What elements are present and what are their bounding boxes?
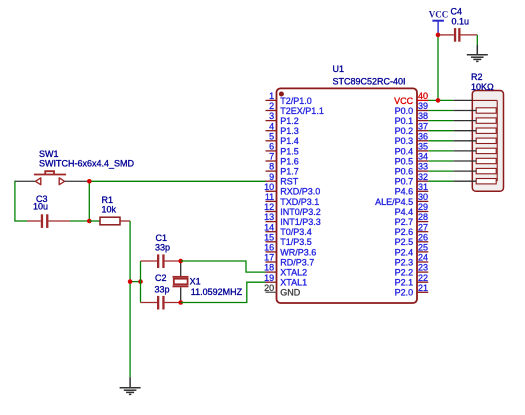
svg-text:P1.7: P1.7 xyxy=(280,167,299,177)
svg-text:11.0592MHZ: 11.0592MHZ xyxy=(191,287,243,297)
power port VCC xyxy=(429,10,449,35)
node: C1/X1 junction xyxy=(178,259,183,264)
R2 element resistor 5 (pin 35 net) xyxy=(476,148,496,153)
pin 9 (RST) xyxy=(266,172,299,187)
pin 34 (P0.5) xyxy=(395,152,429,167)
pin 20 (GND) xyxy=(264,283,301,298)
pin 22 (P2.1) xyxy=(395,273,429,288)
pin 14 (T0/P3.4) xyxy=(264,222,312,237)
pin 10 (RXD/P3.0) xyxy=(264,182,320,197)
pin 23 (P2.2) xyxy=(395,263,429,278)
svg-text:ALE/P4.5: ALE/P4.5 xyxy=(375,197,413,207)
svg-text:10u: 10u xyxy=(33,202,48,212)
svg-text:TXD/P3.1: TXD/P3.1 xyxy=(280,197,319,207)
svg-text:RST: RST xyxy=(280,177,299,187)
pin 17 (RD/P3.7) xyxy=(264,253,314,268)
svg-text:T2/P1.0: T2/P1.0 xyxy=(280,96,312,106)
svg-text:36: 36 xyxy=(418,131,428,141)
svg-text:T2EX/P1.1: T2EX/P1.1 xyxy=(280,106,324,116)
pin 7 (P1.6) xyxy=(266,152,299,167)
pin 31 (P4.6) xyxy=(395,182,429,197)
svg-text:33: 33 xyxy=(418,162,428,172)
pin 26 (P2.5) xyxy=(395,232,429,247)
pin 28 (P2.7) xyxy=(395,212,429,227)
wire: vertical R1 to bridge xyxy=(129,221,131,282)
svg-text:10: 10 xyxy=(264,182,274,192)
svg-text:VCC: VCC xyxy=(394,96,414,106)
R2 pin 5 lead (black) xyxy=(453,140,476,142)
pin 4 (P1.3) xyxy=(266,121,299,136)
wire: U1 pin 36 to R2 xyxy=(428,140,453,142)
svg-text:15: 15 xyxy=(264,232,274,242)
wire: vertical bridge to ground xyxy=(129,282,131,378)
svg-text:T0/P3.4: T0/P3.4 xyxy=(280,227,312,237)
pin 2 (T2EX/P1.1) xyxy=(266,101,324,116)
svg-text:XTAL1: XTAL1 xyxy=(280,278,307,288)
svg-text:INT1/P3.3: INT1/P3.3 xyxy=(280,217,321,227)
capacitor C2 xyxy=(141,296,181,310)
R2 pin 7 lead (black) xyxy=(453,120,476,122)
svg-text:R2: R2 xyxy=(471,72,483,82)
pin 1 (T2/P1.0) xyxy=(266,91,312,106)
svg-text:26: 26 xyxy=(418,232,428,242)
node: C2/X1 junction xyxy=(178,300,183,305)
svg-text:17: 17 xyxy=(264,253,274,263)
R2 element resistor 3 (pin 37 net) xyxy=(476,128,496,133)
svg-text:30: 30 xyxy=(418,192,428,202)
R2 element resistor 8 (pin 32 net) xyxy=(476,179,496,184)
svg-text:P0.5: P0.5 xyxy=(395,156,414,166)
pin 15 (T1/P3.5) xyxy=(264,232,312,247)
R2 element resistor 1 (pin 39 net) xyxy=(476,108,496,113)
svg-text:33p: 33p xyxy=(155,284,170,294)
pin 38 (P0.1) xyxy=(395,111,429,126)
svg-text:C1: C1 xyxy=(156,233,168,243)
crystal X1 xyxy=(173,261,189,303)
svg-text:RXD/P3.0: RXD/P3.0 xyxy=(280,187,320,197)
svg-text:10k: 10k xyxy=(102,205,117,215)
R2 pin 1 lead (black) xyxy=(453,180,476,182)
svg-text:11: 11 xyxy=(265,192,274,202)
pin 5 (P1.4) xyxy=(266,131,299,146)
svg-text:X1: X1 xyxy=(190,276,201,286)
svg-text:R1: R1 xyxy=(102,195,114,205)
svg-text:P2.2: P2.2 xyxy=(395,268,414,278)
wire: C1 node to XTAL2 pin 18 xyxy=(181,261,266,272)
svg-text:37: 37 xyxy=(418,121,428,131)
R2 pin 2 lead (black) xyxy=(453,170,476,172)
pin 24 (P2.3) xyxy=(395,253,429,268)
wire: C3 left segment xyxy=(15,220,27,222)
svg-text:P0.1: P0.1 xyxy=(395,116,414,126)
R2 common pin 9 (black) xyxy=(453,99,472,101)
svg-text:VCC: VCC xyxy=(429,10,449,20)
svg-text:9: 9 xyxy=(269,172,274,182)
svg-text:P4.4: P4.4 xyxy=(395,207,414,217)
wire: C3 to RST node xyxy=(70,220,89,222)
svg-text:GND: GND xyxy=(280,288,301,298)
svg-text:P1.3: P1.3 xyxy=(280,126,299,136)
node: pin 40 / VCC junction xyxy=(436,98,441,103)
pin 11 (TXD/P3.1) xyxy=(265,192,319,207)
svg-text:39: 39 xyxy=(418,101,428,111)
wire: pin 40 to R2 common xyxy=(428,99,454,101)
ground symbol (left) xyxy=(120,377,141,394)
svg-text:22: 22 xyxy=(418,273,428,283)
svg-text:27: 27 xyxy=(418,222,428,232)
svg-text:40: 40 xyxy=(418,91,428,101)
capacitor C4 xyxy=(438,28,477,42)
svg-text:P1.4: P1.4 xyxy=(280,136,299,146)
pin 18 (XTAL2) xyxy=(264,263,307,278)
node: SW1/RST junction xyxy=(87,179,92,184)
svg-text:7: 7 xyxy=(269,152,274,162)
pin 21 (P2.0) xyxy=(395,283,429,298)
svg-text:20: 20 xyxy=(264,283,274,293)
wire: SW1 right lead (grey) xyxy=(65,180,90,182)
svg-text:P1.2: P1.2 xyxy=(280,116,299,126)
pin 8 (P1.7) xyxy=(266,162,299,177)
svg-text:5: 5 xyxy=(269,131,274,141)
svg-text:38: 38 xyxy=(418,111,428,121)
wire: R1 right lead xyxy=(120,220,130,222)
ground symbol (top right) xyxy=(467,45,488,61)
svg-text:RD/P3.7: RD/P3.7 xyxy=(280,257,314,267)
R2 element resistor 6 (pin 34 net) xyxy=(476,158,496,163)
svg-text:2: 2 xyxy=(269,101,274,111)
R2 pin 8 lead (black) xyxy=(453,110,476,112)
svg-text:P0.0: P0.0 xyxy=(395,106,414,116)
svg-text:P0.4: P0.4 xyxy=(395,146,414,156)
pin 33 (P0.6) xyxy=(395,162,429,177)
svg-text:25: 25 xyxy=(418,243,428,253)
svg-text:STC89C52RC-40I: STC89C52RC-40I xyxy=(333,77,406,87)
R2 pin 3 lead (black) xyxy=(453,160,476,162)
resistor network R2 body xyxy=(472,91,503,192)
svg-text:29: 29 xyxy=(418,202,428,212)
wire: junction to R1 xyxy=(89,220,100,222)
svg-text:34: 34 xyxy=(418,152,428,162)
wire: U1 pin 32 to R2 xyxy=(428,180,453,182)
R2 common bus xyxy=(472,100,497,181)
svg-text:P2.3: P2.3 xyxy=(395,257,414,267)
pin 35 (P0.4) xyxy=(395,142,429,157)
svg-text:U1: U1 xyxy=(333,64,345,74)
pin 37 (P0.2) xyxy=(395,121,429,136)
svg-text:33p: 33p xyxy=(155,243,170,253)
svg-text:21: 21 xyxy=(418,283,428,293)
capacitor C1 xyxy=(141,254,181,268)
pin 36 (P0.3) xyxy=(395,131,429,146)
svg-text:P2.4: P2.4 xyxy=(395,247,414,257)
svg-text:14: 14 xyxy=(264,222,274,232)
wire: C4 to ground xyxy=(476,35,478,45)
svg-text:SWITCH-6x6x4.4_SMD: SWITCH-6x6x4.4_SMD xyxy=(39,159,135,169)
pin 27 (P2.6) xyxy=(395,222,429,237)
svg-text:23: 23 xyxy=(418,263,428,273)
node: bridge left junction xyxy=(128,279,133,284)
wire: U1 pin 33 to R2 xyxy=(428,170,453,172)
pin 32 (P0.7) xyxy=(395,172,429,187)
svg-text:13: 13 xyxy=(264,212,274,222)
svg-text:P2.1: P2.1 xyxy=(395,278,414,288)
svg-text:31: 31 xyxy=(418,182,428,192)
svg-text:19: 19 xyxy=(264,273,274,283)
wire: U1 pin 34 to R2 xyxy=(428,160,453,162)
svg-text:P0.7: P0.7 xyxy=(395,177,414,187)
wire: VCC down to pin 40 xyxy=(437,35,439,101)
R2 pin 6 lead (black) xyxy=(453,130,476,132)
svg-text:P4.6: P4.6 xyxy=(395,187,414,197)
wire: bridge between verticals xyxy=(130,281,140,283)
pin 12 (INT0/P3.2) xyxy=(264,202,321,217)
pin 29 (P4.4) xyxy=(395,202,429,217)
svg-text:WR/P3.6: WR/P3.6 xyxy=(280,247,316,257)
svg-text:10KΩ: 10KΩ xyxy=(471,82,494,92)
svg-text:P2.6: P2.6 xyxy=(395,227,414,237)
svg-text:P2.7: P2.7 xyxy=(395,217,414,227)
svg-text:SW1: SW1 xyxy=(39,149,59,159)
resistor R1 xyxy=(100,217,120,225)
wire: U1 pin 37 to R2 xyxy=(428,130,453,132)
svg-text:P1.6: P1.6 xyxy=(280,156,299,166)
wire: long RST wire to pin 9 xyxy=(89,180,265,182)
wire: SW1 left lead (grey) xyxy=(15,180,36,182)
pin 19 (XTAL1) xyxy=(264,273,307,288)
svg-text:P2.5: P2.5 xyxy=(395,237,414,247)
R2 element resistor 2 (pin 38 net) xyxy=(476,118,496,123)
U1 pin 1 marker dot xyxy=(279,92,284,97)
wire: RST node vertical xyxy=(88,181,90,221)
svg-text:4: 4 xyxy=(269,121,274,131)
svg-text:P1.5: P1.5 xyxy=(280,146,299,156)
wire: C2 node to XTAL1 pin 19 xyxy=(181,282,266,302)
svg-text:16: 16 xyxy=(264,243,274,253)
svg-text:P0.3: P0.3 xyxy=(395,136,414,146)
svg-text:P0.2: P0.2 xyxy=(395,126,414,136)
svg-text:XTAL2: XTAL2 xyxy=(280,268,307,278)
pin 6 (P1.5) xyxy=(266,142,299,157)
svg-text:0.1u: 0.1u xyxy=(452,17,470,27)
svg-text:C4: C4 xyxy=(451,7,463,17)
svg-text:32: 32 xyxy=(418,172,428,182)
pin 25 (P2.4) xyxy=(395,243,429,258)
pin 13 (INT1/P3.3) xyxy=(264,212,321,227)
pin 16 (WR/P3.6) xyxy=(264,243,316,258)
R2 element resistor 4 (pin 36 net) xyxy=(476,138,496,143)
node: bridge right junction xyxy=(138,279,143,284)
pin 30 (ALE/P4.5) xyxy=(375,192,428,207)
svg-text:C2: C2 xyxy=(155,273,167,283)
svg-text:1: 1 xyxy=(269,91,274,101)
node: C3/R1 junction xyxy=(87,219,92,224)
wire: U1 pin 38 to R2 xyxy=(428,120,453,122)
svg-text:3: 3 xyxy=(269,111,274,121)
svg-text:P0.6: P0.6 xyxy=(395,167,414,177)
svg-text:28: 28 xyxy=(418,212,428,222)
wire: U1 pin 35 to R2 xyxy=(428,150,453,152)
svg-text:18: 18 xyxy=(264,263,274,273)
svg-text:T1/P3.5: T1/P3.5 xyxy=(280,237,312,247)
pin 40 (VCC) xyxy=(394,91,428,106)
wire: U1 pin 39 to R2 xyxy=(428,110,453,112)
R2 element resistor 7 (pin 33 net) xyxy=(476,168,496,173)
svg-text:6: 6 xyxy=(269,142,274,152)
wire: cap network left vertical xyxy=(140,261,142,303)
svg-text:INT0/P3.2: INT0/P3.2 xyxy=(280,207,321,217)
svg-text:12: 12 xyxy=(264,202,274,212)
pin 39 (P0.0) xyxy=(395,101,429,116)
svg-text:35: 35 xyxy=(418,142,428,152)
capacitor C3 xyxy=(27,214,70,228)
svg-text:8: 8 xyxy=(269,162,274,172)
node: VCC/C4 junction xyxy=(436,33,441,38)
switch SW1 xyxy=(34,171,66,185)
svg-text:24: 24 xyxy=(418,253,428,263)
R2 pin 4 lead (black) xyxy=(453,150,476,152)
op-amp U1 body (IC STC89C52RC-40I) xyxy=(277,88,418,303)
wire: left vertical SW1 to C3 xyxy=(14,181,16,222)
pin 3 (P1.2) xyxy=(266,111,299,126)
svg-text:P2.0: P2.0 xyxy=(395,288,414,298)
